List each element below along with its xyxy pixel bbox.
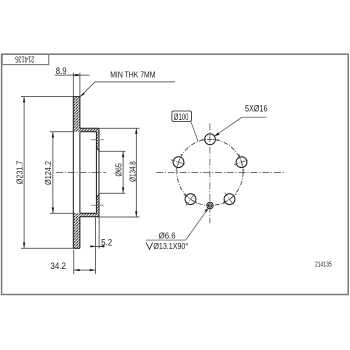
disc outer friction face line xyxy=(72,97,74,249)
arrow 124.2 bottom xyxy=(52,208,54,214)
countersink symbol xyxy=(146,243,152,250)
vertical centerline right view xyxy=(209,123,211,223)
bolt hole axis tick top xyxy=(91,139,104,141)
dim 65 dimension line xyxy=(122,151,124,193)
hatch friction ring section bottom xyxy=(73,213,80,248)
arrow 8.9 left xyxy=(73,74,78,76)
dim 231.7 dimension line xyxy=(23,97,25,249)
arrow 34.2 left xyxy=(74,269,80,271)
center mark upper right hole radial xyxy=(234,160,249,165)
dim 8.9 extension line right xyxy=(79,73,81,97)
arrow 231.7 bottom xyxy=(23,243,25,249)
svg-text:214135: 214135 xyxy=(15,54,35,63)
shelf 5X dia 16 xyxy=(242,116,266,118)
arrow 231.7 top xyxy=(23,97,25,103)
arrow MIN THK leader xyxy=(80,93,85,97)
arrow 5X dia 16 leader xyxy=(214,132,219,136)
hat wall inner line xyxy=(95,132,97,213)
arrow 5.2 left xyxy=(90,245,95,247)
centerline left view axis xyxy=(56,172,106,174)
dim 65 extension line bottom xyxy=(99,192,125,194)
svg-text:Ø231.7: Ø231.7 xyxy=(16,160,25,184)
hatch friction ring section top xyxy=(73,97,80,132)
dim 34.2 dimension line xyxy=(74,269,96,271)
dim 231.7 extension line bottom xyxy=(21,247,73,249)
arrow dia 6.6 leader xyxy=(205,208,209,212)
center mark top hole horizontal xyxy=(202,138,219,140)
arrow 5.2 right xyxy=(99,245,104,247)
arrow 8.9 right xyxy=(75,74,80,76)
disc inner friction face line lower segment xyxy=(79,217,81,249)
hatch hat web section top xyxy=(80,128,99,132)
hat web bottom surface xyxy=(80,131,97,133)
leader 5X dia 16 xyxy=(215,117,242,136)
locating hole outer circle xyxy=(207,202,213,208)
dim 124.2 extension line top xyxy=(50,131,75,133)
bolt hole axis tick bottom xyxy=(91,204,104,206)
svg-text:Ø13.1X90°: Ø13.1X90° xyxy=(153,241,188,251)
svg-text:MIN THK 7MM: MIN THK 7MM xyxy=(110,70,155,79)
leader dia 100 xyxy=(191,121,198,141)
disc inner friction face line upper segment xyxy=(79,97,81,129)
leader MIN THK 7MM xyxy=(80,82,175,97)
dim 5.2 extension line right xyxy=(98,217,100,248)
left view: brake disc cross-section xyxy=(73,97,99,249)
svg-text:Ø6.6: Ø6.6 xyxy=(159,231,176,240)
bottom hat web bottom surface xyxy=(80,216,99,218)
center mark upper left hole tangential xyxy=(176,154,181,170)
svg-text:8.9: 8.9 xyxy=(56,66,67,76)
dim 134.8 dimension line xyxy=(135,128,137,217)
dim 124.2 dimension line xyxy=(52,132,54,214)
disc OD bottom edge xyxy=(73,247,80,249)
svg-text:Ø134.8: Ø134.8 xyxy=(129,161,138,182)
hatch hat wall section top xyxy=(96,132,99,147)
bolt hole lower right xyxy=(224,194,235,205)
svg-text:214135: 214135 xyxy=(315,259,332,268)
dim 134.8 extension line top xyxy=(100,127,140,129)
svg-text:Ø124.2: Ø124.2 xyxy=(44,161,53,185)
bore chamfer top xyxy=(96,147,99,151)
dim 34.2 extension line left xyxy=(73,250,75,274)
hatch hat web section bottom xyxy=(80,213,99,217)
arrow 65 top xyxy=(122,151,124,157)
horizontal centerline right view xyxy=(156,172,286,174)
center mark lower right hole radial xyxy=(225,193,234,206)
center mark lower right hole tangential xyxy=(223,194,237,204)
dim 65 extension line top xyxy=(99,150,125,152)
title box top-left xyxy=(2,54,49,64)
arrow 134.8 top xyxy=(135,128,137,134)
label box dia 100 xyxy=(172,111,192,121)
hat mounting face line xyxy=(98,128,100,217)
dim 8.9 extension line left xyxy=(72,73,74,97)
dim 8.9 dimension line xyxy=(55,74,90,76)
arrow 124.2 top xyxy=(52,132,54,138)
bottom hat web top surface xyxy=(80,212,97,214)
right view: bolt circle PCD dash-dot circle xyxy=(177,139,243,205)
center mark lower left hole radial xyxy=(186,193,195,206)
center mark upper right hole tangential xyxy=(239,154,244,170)
dim 231.7 extension line top xyxy=(21,96,73,98)
hat web top surface xyxy=(80,127,99,129)
svg-text:Ø65: Ø65 xyxy=(115,163,124,177)
arrow 34.2 right xyxy=(90,269,96,271)
arrow 134.8 bottom xyxy=(135,211,137,217)
dim 5.2 dimension line xyxy=(90,245,104,247)
dim 134.8 extension line bottom xyxy=(98,216,140,218)
disc inner friction face line middle segment xyxy=(79,132,81,213)
bolt hole top xyxy=(205,134,216,145)
dim 124.2 extension line bottom xyxy=(50,212,75,214)
shelf dia 6.6 xyxy=(146,239,186,241)
svg-text:Ø100: Ø100 xyxy=(174,112,189,122)
leader dia 6.6 xyxy=(186,208,209,240)
bolt hole upper left xyxy=(173,157,184,168)
arrow 65 bottom xyxy=(122,187,124,193)
bolt hole lower left xyxy=(185,194,196,205)
bolt hole upper right xyxy=(236,157,247,168)
locating hole inner circle xyxy=(208,204,211,207)
dim 5.2 extension line left xyxy=(95,217,97,274)
disc OD top edge xyxy=(73,96,80,98)
center mark lower left hole tangential xyxy=(184,194,198,204)
drawing frame border xyxy=(2,54,349,294)
bore chamfer bottom xyxy=(96,194,99,198)
svg-text:5.2: 5.2 xyxy=(101,237,112,247)
hatch hat wall section bottom xyxy=(96,198,99,213)
svg-text:34.2: 34.2 xyxy=(50,261,66,271)
center mark upper left hole radial xyxy=(171,160,186,165)
svg-text:5XØ16: 5XØ16 xyxy=(245,103,268,113)
